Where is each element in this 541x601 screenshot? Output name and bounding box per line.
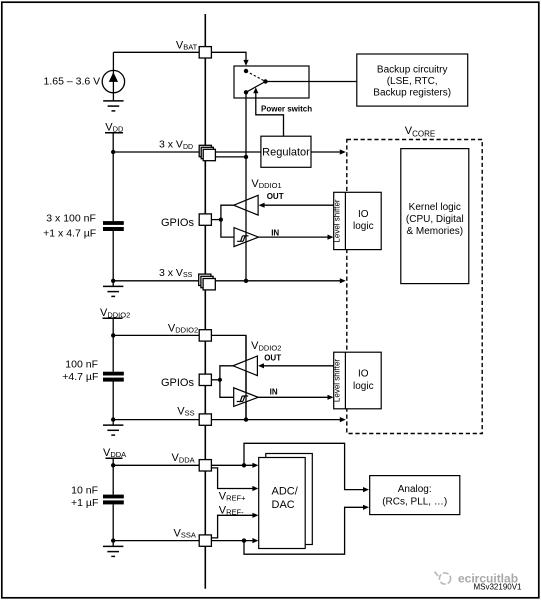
wire GPIO2 pin to node xyxy=(211,379,220,381)
wire VDDIO2 rail upper xyxy=(112,318,114,371)
node VDDIO2 rail xyxy=(111,333,115,337)
arrow IN1 into level shifter xyxy=(328,235,334,240)
wire VDD pin to regulator xyxy=(215,151,261,153)
svg-text:100 nF: 100 nF xyxy=(65,359,98,371)
wire GPIO1 branch xyxy=(221,205,234,237)
wire VSS xyxy=(113,419,340,421)
svg-text:+4.7 µF: +4.7 µF xyxy=(62,371,98,383)
wire OUT2 xyxy=(261,365,333,367)
ground (VSS rail) xyxy=(112,281,114,287)
node VDD rail xyxy=(111,150,115,154)
wire VSSA xyxy=(113,540,253,542)
VDDA rail label bar xyxy=(106,457,123,459)
svg-text:10 nF: 10 nF xyxy=(71,484,98,496)
node VSS column xyxy=(244,279,248,283)
arrow up into switch xyxy=(253,87,258,93)
wire VDDIO2 rail lower xyxy=(112,382,114,420)
wire IN2 xyxy=(258,396,328,398)
VDD rail label bar xyxy=(105,132,123,134)
node: switch pole B xyxy=(244,90,248,94)
svg-text:Level shifter: Level shifter xyxy=(332,199,341,242)
node VSS rail xyxy=(111,279,115,283)
watermark logo xyxy=(435,572,451,585)
wire GPIO2 branch xyxy=(220,366,234,398)
node VSS2 column xyxy=(244,417,248,421)
arrow OUT2 into buffer xyxy=(258,363,264,368)
svg-text:Backup circuitry: Backup circuitry xyxy=(377,64,448,75)
wire battery column xyxy=(112,52,114,101)
input schmitt buffer 2 xyxy=(234,388,259,407)
pin VDDIO2 xyxy=(199,330,211,341)
VDDIO2 rail label bar xyxy=(103,317,123,319)
svg-text:& Memories): & Memories) xyxy=(406,226,463,237)
arrow VSS into VCORE xyxy=(340,417,346,422)
wire VDDA to pin xyxy=(113,464,199,466)
svg-text:GPIOs: GPIOs xyxy=(161,377,195,389)
wire switch to backup box xyxy=(266,81,357,83)
wire VDD pin to switch column xyxy=(215,156,246,158)
svg-text:logic: logic xyxy=(353,381,374,392)
svg-text:Analog:: Analog: xyxy=(398,484,432,495)
svg-text:IO: IO xyxy=(358,209,369,220)
arrow IN2 into level shifter xyxy=(328,395,334,400)
regulator U2 box xyxy=(261,136,311,167)
capacitor C2 100nF+4.7uF xyxy=(103,372,124,376)
wire GPIO1 pin to node xyxy=(211,219,221,221)
svg-text:3 x 100 nF: 3 x 100 nF xyxy=(46,213,96,225)
pin 3xVDD stack xyxy=(199,145,211,156)
svg-text:IN: IN xyxy=(270,387,278,396)
svg-text:logic: logic xyxy=(353,221,374,232)
svg-text:ADC/: ADC/ xyxy=(272,486,299,498)
pin VDDA xyxy=(199,460,211,471)
svg-text:1.65 – 3.6 V: 1.65 – 3.6 V xyxy=(44,75,101,87)
svg-text:Regulator: Regulator xyxy=(262,147,310,159)
wire VDDA pin to ADC xyxy=(211,464,253,466)
power switch box xyxy=(234,66,309,98)
wire regulator output xyxy=(311,151,340,153)
pin GPIOs1 xyxy=(199,214,211,225)
svg-text:IN: IN xyxy=(271,228,279,237)
VDDIO2 supply column redraw xyxy=(245,335,247,419)
svg-text:+1 µF: +1 µF xyxy=(71,497,98,509)
pin 3xVSS stack xyxy=(199,274,211,285)
ground (VDDA rail) xyxy=(112,541,114,547)
node: switch pole A xyxy=(244,69,248,73)
svg-text:Kernel logic: Kernel logic xyxy=(409,202,461,213)
arrow 3xVSS into VCORE xyxy=(340,278,346,283)
wire VDDA rail lower xyxy=(112,504,114,540)
svg-text:Level shifter: Level shifter xyxy=(332,359,341,402)
input schmitt buffer 1 xyxy=(234,228,259,247)
svg-text:(CPU, Digital: (CPU, Digital xyxy=(406,214,464,225)
svg-text:MSv32190V1: MSv32190V1 xyxy=(473,582,522,591)
capacitor C3 10nF+1uF xyxy=(103,495,124,499)
node VDDA rail xyxy=(111,463,115,467)
ground (battery) xyxy=(103,101,123,111)
output buffer 1 xyxy=(234,195,258,215)
wire regulator to switch xyxy=(256,93,284,136)
voltage source V1 1.65-3.6V xyxy=(102,70,124,92)
arrow OUT1 into buffer xyxy=(259,203,265,208)
wire VDD to pin xyxy=(113,151,204,153)
node VSS2 rail xyxy=(111,417,115,421)
wire VBAT right to switch xyxy=(211,52,246,60)
pin VSSA xyxy=(199,535,211,546)
svg-text:GPIOs: GPIOs xyxy=(161,217,195,229)
wire VDDA to analog top route xyxy=(244,443,363,489)
wire OUT1 xyxy=(262,204,334,206)
svg-text:DAC: DAC xyxy=(272,499,295,511)
pin VSS xyxy=(199,414,211,425)
wire VDD rail upper xyxy=(112,133,114,221)
node VDDA column xyxy=(242,463,246,467)
level shifter 2 box xyxy=(334,352,382,409)
wire VDD rail lower xyxy=(112,231,114,281)
svg-text:Power switch: Power switch xyxy=(261,104,312,113)
svg-text:IO: IO xyxy=(358,369,369,380)
node GPIO1 xyxy=(219,218,223,222)
node: switch common C xyxy=(263,79,267,83)
level shifter 1 box xyxy=(334,192,382,249)
node GPIO2 xyxy=(218,378,222,382)
wire VSSA to analog bottom route xyxy=(244,507,363,554)
capacitor C1 3x100nF+4.7uF xyxy=(103,221,124,225)
wire IN1 xyxy=(259,236,329,238)
svg-text:(RCs, PLL, …): (RCs, PLL, …) xyxy=(382,496,447,507)
node VSSA rail xyxy=(111,538,115,542)
switch dashed throw xyxy=(246,71,266,82)
analog block box xyxy=(370,476,460,515)
output buffer 2 xyxy=(233,356,257,376)
pin VBAT xyxy=(199,47,211,58)
backup circuitry box xyxy=(357,54,468,106)
switch lever xyxy=(246,82,266,93)
node VDD/switch junction xyxy=(244,155,248,159)
svg-text:OUT: OUT xyxy=(264,354,281,363)
wire VBAT left xyxy=(113,51,199,53)
ADC/DAC front box xyxy=(259,458,306,549)
ground (VDDIO2 rail) xyxy=(112,420,114,426)
wire 3xVSS xyxy=(113,280,340,282)
arrow into VCORE xyxy=(340,149,346,154)
node VSSA column xyxy=(242,538,246,542)
wire VDDA rail upper xyxy=(112,458,114,494)
svg-text:Backup registers): Backup registers) xyxy=(373,88,451,99)
wire VREF- xyxy=(211,515,253,538)
wire VDDIO2 to pin xyxy=(113,334,199,336)
MCU boundary line xyxy=(204,14,206,589)
arrow into switch top xyxy=(243,60,248,66)
wire VBAT/VDD supply column xyxy=(245,92,247,280)
pin GPIOs2 xyxy=(199,374,211,385)
kernel logic box xyxy=(401,149,469,284)
wire VDDIO2 pin to column xyxy=(211,335,246,419)
svg-text:(LSE, RTC,: (LSE, RTC, xyxy=(387,76,438,87)
VCORE dashed domain box xyxy=(347,140,482,434)
ADC/DAC back box xyxy=(266,454,313,545)
svg-text:+1 x 4.7 µF: +1 x 4.7 µF xyxy=(43,227,96,239)
svg-text:OUT: OUT xyxy=(267,192,284,201)
wire VREF+ xyxy=(211,468,253,489)
